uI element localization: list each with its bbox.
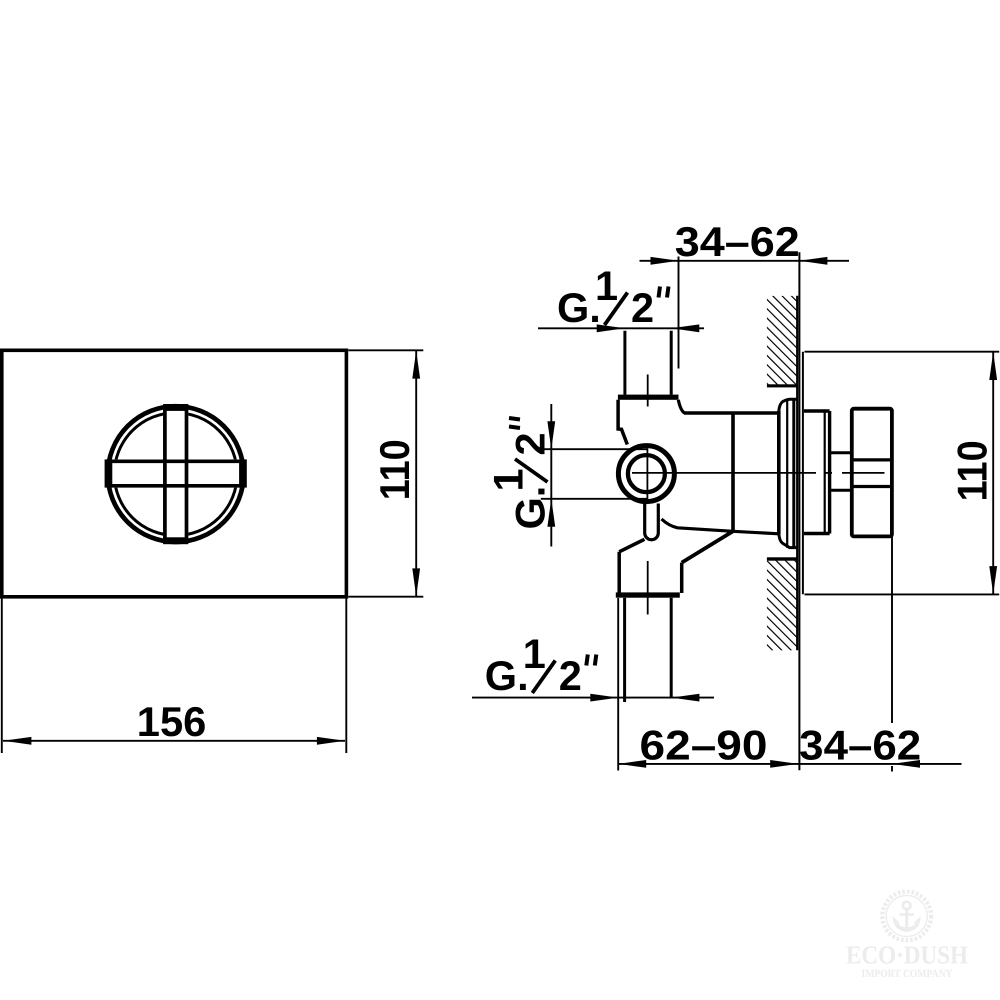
plate left edge + extension line [798, 252, 800, 770]
dim top G1/2 line [538, 327, 704, 329]
svg-text:1: 1 [485, 468, 532, 491]
slot below port [643, 504, 646, 534]
body lower-left edge [617, 552, 621, 593]
stem [830, 451, 852, 454]
anchor [894, 902, 919, 931]
flange verticals [786, 399, 788, 548]
plate rectangle front view [2, 350, 347, 597]
cross end cap left [105, 459, 113, 487]
svg-text:2: 2 [631, 284, 654, 331]
handle knob [852, 409, 892, 537]
wall hatch upper block [767, 296, 798, 385]
dimension 156: extension lines [2, 599, 347, 754]
dimension 110 left text [371, 439, 418, 500]
wall hatch lower block top bar [767, 557, 798, 560]
body cone diagonal [682, 531, 733, 562]
dim right 110 text [949, 440, 996, 501]
svg-text:IMPORT COMPANY: IMPORT COMPANY [862, 968, 953, 980]
svg-text:1: 1 [595, 262, 618, 309]
svg-text:110: 110 [371, 439, 418, 500]
dim top 34-62 extension [678, 257, 680, 369]
svg-text:1: 1 [523, 630, 546, 677]
body upper-left outline [618, 400, 627, 445]
bottom dims extension lines [618, 537, 962, 771]
side port outer ring [618, 446, 674, 502]
top pipe collar [618, 395, 679, 400]
svg-text:34–62: 34–62 [675, 218, 800, 265]
side port inner ring [628, 455, 665, 492]
cartridge left edge [731, 413, 735, 531]
svg-text:ECO·DUSH: ECO·DUSH [846, 941, 968, 970]
body and cartridge top edge [684, 411, 779, 415]
dim right 110 extension lines [805, 352, 1000, 595]
body lower-left diagonal [619, 539, 644, 552]
knob grooves [852, 458, 892, 461]
svg-text:110: 110 [949, 440, 996, 501]
label G 1/2 top [557, 262, 669, 331]
top pipe walls [623, 331, 626, 395]
handle inner ring [114, 413, 237, 536]
bottom pipe walls [623, 598, 626, 702]
body lower-right edge [680, 563, 684, 593]
wall face line [796, 296, 798, 651]
dimension 110 left arrows [412, 351, 420, 379]
cross end cap right [239, 459, 247, 487]
sleeve [804, 411, 830, 534]
dim top 34-62 line [640, 260, 850, 262]
dim left G1/2 line [550, 404, 552, 547]
vertical centerline segments [646, 375, 648, 615]
handle outer ring [108, 406, 244, 542]
svg-text:2: 2 [507, 432, 554, 455]
svg-text:34–62: 34–62 [799, 722, 921, 769]
wall hatch upper block bottom bar [767, 384, 798, 387]
cross end cap top [163, 404, 188, 411]
cross end cap bottom [163, 537, 188, 544]
dim bottom 34-62 arrow [892, 760, 920, 768]
label G 1/2 rotated [485, 418, 554, 530]
plate edge-on [802, 352, 804, 595]
flange bottom curve [779, 534, 798, 548]
horizontal centerline segments [632, 472, 885, 474]
cartridge right edge [777, 411, 781, 535]
dim bottom G1/2 line [472, 697, 714, 699]
svg-text:2: 2 [559, 652, 582, 699]
rope ring [882, 892, 931, 941]
cross bar edges [109, 409, 242, 539]
dimension 156 arrows [3, 737, 31, 745]
flange top curve [779, 399, 798, 411]
wall hatch lower block [767, 561, 798, 651]
knob extension stub [891, 766, 893, 772]
body upper-right collar curve [678, 400, 684, 413]
dim 62-90 arrows [618, 760, 646, 768]
dim left G1/2 tangent lines [541, 448, 647, 450]
dim top 34-62 arrows [651, 257, 679, 265]
body bottom bore line [662, 519, 779, 534]
svg-text:62–90: 62–90 [640, 722, 768, 769]
label G 1/2 bottom [485, 630, 597, 699]
bottom pipe collar [616, 592, 680, 597]
dimension 110 left: extension lines [348, 350, 423, 596]
svg-text:156: 156 [137, 698, 207, 745]
handle cross white fill [105, 405, 246, 544]
